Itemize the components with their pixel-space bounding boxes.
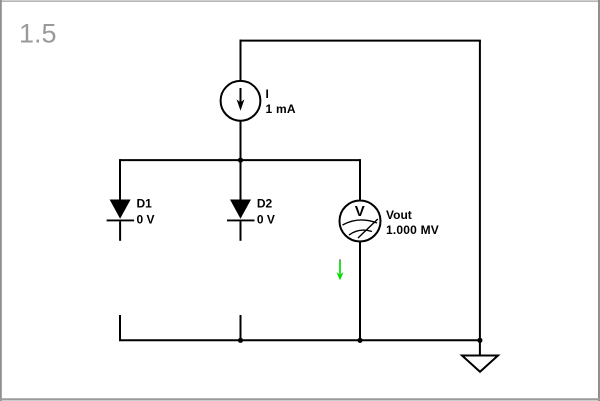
svg-text:1.5: 1.5 <box>19 19 57 49</box>
svg-text:0 V: 0 V <box>137 213 155 227</box>
wire D1 top lead (120,160)-(120,200) <box>119 159 121 200</box>
svg-text:1.000 MV: 1.000 MV <box>386 223 439 237</box>
junction at (480,340) <box>477 338 482 343</box>
wire D1 bottom stub (120,315)-(120,340) <box>119 315 121 340</box>
wire current source bottom lead (240,121)-(240,160) <box>240 121 242 160</box>
svg-text:V: V <box>355 203 365 220</box>
wire voltmeter top lead (360,160)-(360,200.5) <box>359 159 361 200</box>
junction at (360,340) <box>357 338 362 343</box>
wire top (240,40)-(480,40) <box>240 40 481 42</box>
current source I <box>221 81 261 121</box>
svg-text:D2: D2 <box>257 197 273 211</box>
svg-text:I: I <box>266 87 269 101</box>
current direction arrow (green) <box>337 259 344 280</box>
wire bottom (120,340)-(480,340) <box>119 339 481 341</box>
diode D1 <box>107 200 135 241</box>
junction at (240,160) <box>238 158 243 163</box>
svg-text:D1: D1 <box>137 197 153 211</box>
ground <box>462 356 498 372</box>
diode D2 <box>227 200 255 241</box>
wire voltmeter bottom lead (360,241.5)-(360,340) <box>359 242 361 341</box>
wire right (480,40)-(480,340) <box>479 40 481 340</box>
wire D2 top lead (240,160)-(240,200) <box>240 160 242 200</box>
wire current source top lead (240,40)-(240,81) <box>240 40 242 81</box>
wire ground lead (480,340)-(480,355) <box>479 340 481 356</box>
svg-text:Vout: Vout <box>386 208 412 222</box>
voltmeter Vout <box>340 201 381 242</box>
junction at (240,340) <box>238 338 243 343</box>
wire D2 bottom stub (240,315)-(240,340) <box>240 315 242 340</box>
wire middle horizontal (120,160)-(360,160) <box>120 159 360 161</box>
svg-text:0 V: 0 V <box>257 213 275 227</box>
svg-text:1 mA: 1 mA <box>266 102 296 116</box>
